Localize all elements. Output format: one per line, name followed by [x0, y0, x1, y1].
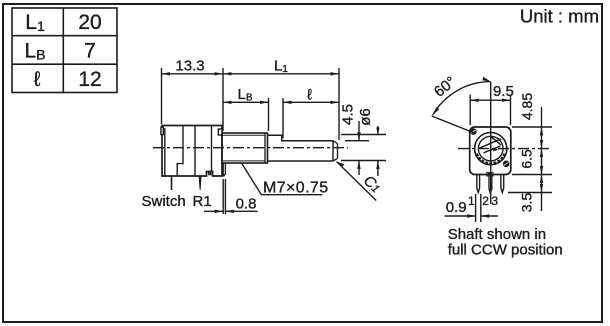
body cover seam	[164, 128, 166, 176]
svg-text:R1: R1	[193, 193, 212, 210]
dimension L1	[223, 73, 339, 75]
body outline	[162, 126, 222, 177]
svg-text:7: 7	[84, 40, 96, 63]
svg-text:1: 1	[468, 194, 475, 208]
inner circle	[478, 136, 503, 161]
svg-text:Switch: Switch	[142, 193, 186, 210]
R1 pin	[199, 176, 202, 191]
internal partition 1 with step	[177, 126, 183, 177]
dimension ø6	[341, 134, 386, 136]
svg-text:12: 12	[78, 68, 101, 91]
svg-text:Unit : mm: Unit : mm	[520, 6, 599, 27]
internal partition 3	[211, 126, 213, 172]
parameter table	[12, 8, 117, 93]
svg-text:6.5: 6.5	[518, 149, 534, 169]
rear pin 3	[501, 175, 504, 193]
rear body	[470, 127, 511, 175]
internal partition 2	[194, 126, 196, 177]
svg-text:4.5: 4.5	[340, 104, 357, 125]
dimension 0.8	[222, 179, 224, 214]
vertical centerline	[490, 82, 492, 204]
svg-text:ℓ: ℓ	[307, 87, 312, 104]
60 degree arc	[433, 82, 491, 116]
bottom notch tab	[209, 172, 211, 175]
mounting plate	[223, 164, 225, 176]
flat chord	[492, 137, 502, 145]
bushing (threaded)	[222, 133, 268, 163]
thread root lines	[222, 134, 265, 136]
svg-text:13.3: 13.3	[175, 58, 204, 75]
label C1 with leader	[337, 162, 377, 201]
rear pin 2	[489, 176, 492, 193]
svg-text:3: 3	[491, 194, 498, 208]
slot upper edge	[479, 139, 501, 148]
dimension 0.9	[475, 194, 477, 222]
svg-text:0.8: 0.8	[236, 195, 257, 212]
top-left cover tab	[161, 127, 163, 134]
dimension LB	[223, 101, 269, 103]
dimension 9.5	[469, 95, 471, 126]
switch pin	[171, 176, 173, 190]
shaft	[268, 135, 334, 141]
rivet bottom-right	[503, 161, 510, 168]
dimension 4.5	[345, 140, 369, 142]
svg-text:0.9: 0.9	[446, 199, 467, 216]
shaft bottom line over bushing	[268, 160, 334, 162]
knurl serrations	[476, 154, 505, 164]
label M7x0.75 with leader	[242, 163, 323, 195]
svg-text:2: 2	[482, 194, 489, 208]
top-right cover tab	[218, 129, 222, 135]
svg-text:Shaft shown in: Shaft shown in	[448, 226, 546, 243]
svg-text:M7×0.75: M7×0.75	[263, 180, 329, 197]
right side stacked dimensions	[512, 126, 552, 128]
dimension 13.3	[162, 68, 224, 124]
rear pin 1	[477, 175, 480, 193]
centerline	[153, 147, 348, 149]
svg-text:9.5: 9.5	[493, 83, 514, 100]
thread relief line	[264, 133, 266, 163]
knurled ring outer circle	[475, 133, 507, 165]
svg-text:3.5: 3.5	[518, 193, 534, 213]
svg-text:ℓ: ℓ	[34, 68, 41, 91]
svg-text:4.85: 4.85	[519, 93, 535, 120]
dimension l (ell)	[283, 101, 339, 103]
shaft flat edge line	[332, 141, 334, 161]
svg-text:ø6: ø6	[357, 108, 374, 126]
svg-text:full CCW position: full CCW position	[448, 242, 563, 259]
rivet top-left	[470, 128, 477, 135]
pointer arrowhead	[493, 148, 499, 151]
horizontal centerline	[458, 148, 551, 150]
60 degree radial line	[432, 116, 476, 134]
svg-text:20: 20	[78, 11, 101, 34]
slot lower edge	[484, 146, 501, 153]
pin 2 stake	[487, 172, 493, 176]
